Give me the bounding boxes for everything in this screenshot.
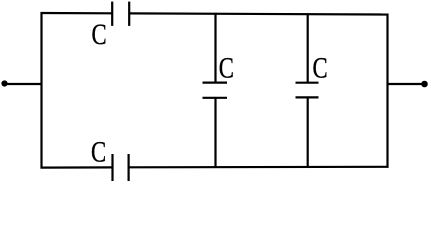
wire middle branch 2 lower	[307, 97, 309, 166]
svg-text:C: C	[92, 18, 107, 50]
wire left vertical rail	[40, 12, 42, 169]
wire middle branch 2 upper	[307, 13, 309, 82]
left terminal node	[1, 80, 7, 86]
wire top rail right segment	[130, 13, 389, 14]
capacitor C (middle 1) top plate	[203, 81, 228, 83]
svg-text:C: C	[313, 52, 328, 84]
wire middle branch 1 lower	[214, 98, 216, 167]
capacitor C (middle 2) top plate	[296, 82, 319, 84]
wire bottom rail left segment	[41, 166, 112, 168]
capacitor C (top) right plate	[128, 2, 130, 26]
wire right vertical rail	[386, 14, 388, 168]
wire top rail left segment	[41, 12, 112, 15]
capacitor C (middle 1) bottom plate	[203, 97, 228, 99]
right terminal node	[421, 81, 428, 88]
wire right rail to right terminal	[388, 83, 423, 85]
capacitor C (bottom) right plate	[128, 154, 130, 181]
wire bottom rail right segment	[129, 166, 388, 169]
wire middle branch 1 upper	[214, 13, 216, 83]
capacitor C (bottom) left plate	[111, 154, 113, 181]
capacitor C (middle 2) bottom plate	[296, 96, 319, 98]
svg-text:C: C	[219, 52, 234, 84]
capacitor C (top) left plate	[111, 2, 113, 26]
svg-text:C: C	[91, 136, 106, 168]
wire left terminal to left rail	[5, 83, 43, 85]
